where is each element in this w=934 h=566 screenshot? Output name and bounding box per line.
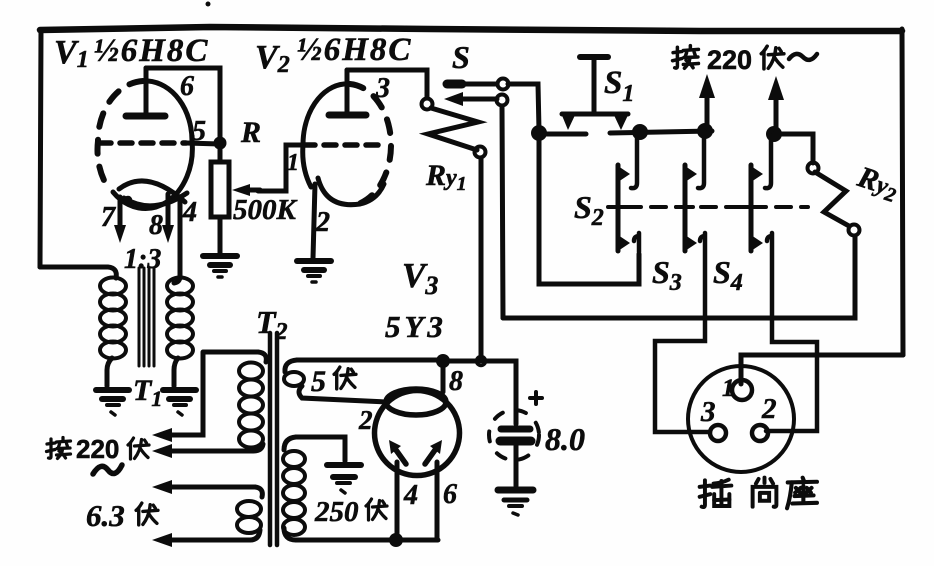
wire: bus segment B (S1 right) xyxy=(610,131,712,133)
tube V1 pin 4 cathode lead to T1 xyxy=(174,197,180,283)
S3 bottom moving contact xyxy=(685,235,697,251)
wire: bus segment A (S1 left) xyxy=(539,132,586,137)
T2 rectifier winding 5V top lead to V3 pin 8 xyxy=(297,358,441,363)
svg-text:6: 6 xyxy=(180,71,194,102)
svg-text:R: R xyxy=(240,116,261,149)
label 6.3伏 xyxy=(86,498,158,533)
svg-text:2: 2 xyxy=(358,405,373,435)
capacitor polarity + xyxy=(530,392,542,404)
S3 top moving contact xyxy=(685,166,697,182)
T2 heater winding 6.3V xyxy=(255,487,262,497)
tube V3 envelope xyxy=(375,391,460,476)
wire: Ry1 down to node 8 xyxy=(479,158,484,357)
capacitor dashed circle xyxy=(489,410,539,460)
tube V1 cathode arc xyxy=(119,181,185,202)
5V winding left turn xyxy=(285,360,297,372)
S4 top moving contact xyxy=(751,166,763,182)
wire: bus down to S2 bottom (holding contact) xyxy=(539,134,639,284)
svg-text:8: 8 xyxy=(149,210,163,241)
svg-text:4: 4 xyxy=(182,197,197,228)
arrow: 220V lead 2 (from T2 primary bottom) xyxy=(152,444,253,458)
tube V3 pin 4 lead xyxy=(395,462,400,540)
junction circle where Ry1 line meets node xyxy=(477,357,486,366)
switch S pole contact xyxy=(422,99,433,110)
tube V1 plate xyxy=(126,113,165,120)
S4 top fixed contact and lead to bus xyxy=(765,136,771,188)
svg-text:5: 5 xyxy=(192,116,206,147)
switch S upper throw contact bar xyxy=(447,80,462,89)
T1 left winding turns xyxy=(100,278,126,359)
ground below R xyxy=(203,256,237,277)
node: S2 top lead on bus xyxy=(632,124,648,140)
ink speck on top margin xyxy=(206,2,211,7)
tube V3 pin 6 lead xyxy=(435,462,440,540)
T2 core xyxy=(270,333,277,545)
svg-text:5Y3: 5Y3 xyxy=(385,309,447,344)
5V winding bottom lead to V3 pin 2 xyxy=(299,386,386,402)
wiper arrow into R (from V2 grid) xyxy=(232,184,260,196)
svg-text:T1: T1 xyxy=(133,374,162,411)
svg-text:220: 220 xyxy=(707,45,752,75)
label 接220伏~ xyxy=(673,45,817,75)
tube V2 plate lead pin 3 xyxy=(345,70,350,113)
svg-text:S1: S1 xyxy=(604,65,634,107)
switch S lower throw arrow contact xyxy=(444,92,497,106)
svg-text:V2: V2 xyxy=(255,39,290,78)
tube V2 grid (dashed) xyxy=(303,142,387,148)
node: V1 grid / plate / R junction xyxy=(214,137,227,150)
arrow: 220V lead 1 (from T2 primary top) xyxy=(152,352,258,442)
tube V1 pin 7 lead arrow xyxy=(114,197,126,243)
resistor R body xyxy=(211,162,229,217)
tube V1 envelope xyxy=(97,81,192,208)
svg-text:½6H8C: ½6H8C xyxy=(297,32,412,68)
label 5伏 xyxy=(311,365,356,398)
svg-text:1: 1 xyxy=(722,375,735,402)
svg-text:2: 2 xyxy=(761,393,777,425)
wire: S upper throw to bus xyxy=(464,82,497,87)
wire: 250V winding bottom to V3 plates xyxy=(296,538,438,543)
tube V1 grid (dashed) xyxy=(99,140,186,146)
capacitor bottom lead xyxy=(514,445,519,486)
switch S upper throw terminal circle xyxy=(498,79,509,90)
S1 left arrowhead xyxy=(561,113,576,130)
wire: right border down xyxy=(902,29,903,355)
wire: S lower throw down xyxy=(502,106,503,318)
wire: V2 plate to switch S pole xyxy=(347,70,427,98)
S2 bottom moving contact xyxy=(618,235,630,251)
ground under T1 right xyxy=(163,390,196,415)
svg-text:Ry1: Ry1 xyxy=(425,159,467,195)
svg-text:4: 4 xyxy=(403,480,418,511)
svg-text:3: 3 xyxy=(700,396,716,428)
wire: S upper throw to bus dot xyxy=(508,84,539,130)
S3 actuator tick xyxy=(676,205,693,209)
S2 actuator tick xyxy=(608,205,626,209)
svg-text:V3: V3 xyxy=(402,256,438,300)
relay coil Ry1 xyxy=(428,108,478,150)
tube V1 heater arc xyxy=(124,193,187,206)
svg-text:S: S xyxy=(452,39,470,75)
socket pin 3 xyxy=(710,425,726,441)
tube V2 cathode arc xyxy=(318,178,384,205)
svg-text:S4: S4 xyxy=(713,254,743,296)
svg-text:Ry2: Ry2 xyxy=(852,160,903,207)
tube V1 pin 7 contact dot xyxy=(125,197,131,203)
tube V1 pin 8 lead arrow xyxy=(162,194,174,243)
tube V2 envelope xyxy=(303,84,391,205)
T1 left winding bottom lead xyxy=(107,358,112,386)
svg-text:2: 2 xyxy=(315,207,330,238)
wire: R bottom lead xyxy=(218,217,223,253)
pushbutton S1 plunger xyxy=(580,57,608,112)
S4 bottom moving contact xyxy=(751,235,763,251)
node: S3 top lead / mains arrow on bus xyxy=(697,123,713,139)
svg-text:8: 8 xyxy=(449,366,463,397)
tube V2 cathode lead pin 2 xyxy=(313,184,315,258)
svg-text:1: 1 xyxy=(287,150,299,176)
tube V1 grid lead xyxy=(186,143,220,144)
pushbutton S1 crossbar xyxy=(562,112,628,117)
mains arrow 2 (接220伏) xyxy=(768,76,784,130)
svg-text:220: 220 xyxy=(76,434,119,464)
node: bus left junction xyxy=(531,125,547,141)
svg-text:V1: V1 xyxy=(54,34,89,73)
svg-text:3: 3 xyxy=(375,73,390,104)
tube V2 grid lead pin 1 to R wiper xyxy=(258,145,305,191)
svg-text:½6H8C: ½6H8C xyxy=(94,33,209,69)
Ry2 top terminal circle xyxy=(808,163,819,174)
svg-text:8.0: 8.0 xyxy=(545,421,585,457)
wire: top border bus xyxy=(40,27,902,31)
S4 actuator tick xyxy=(742,205,759,209)
S2 top moving contact xyxy=(618,166,630,182)
ground under T1 left xyxy=(96,390,129,415)
arrow: 6.3V lead top xyxy=(152,480,255,494)
socket body xyxy=(688,366,794,472)
node: pin 8 / 5V / B+ junction xyxy=(436,354,450,368)
S1 right arrowhead xyxy=(613,113,629,130)
socket pin 1 xyxy=(732,380,752,400)
switch S4 movable bar xyxy=(749,165,754,251)
S2 bottom fixed contact xyxy=(634,233,639,252)
switch S lower throw terminal circle xyxy=(497,95,508,106)
svg-text:6.3: 6.3 xyxy=(86,498,125,533)
wire: socket pin1 riser to right border xyxy=(741,355,903,384)
svg-text:7: 7 xyxy=(101,202,116,233)
tube V2 plate xyxy=(329,112,366,119)
ground under capacitor xyxy=(498,490,533,515)
ground below V2 xyxy=(297,261,331,282)
node: V3 pin 4 junction xyxy=(389,533,403,547)
node: S4 top lead / mains arrow 2 xyxy=(766,126,782,142)
wire: S4 node to Ry2 top xyxy=(774,134,813,163)
S4 bottom fixed contact and lead to socket pin 2 xyxy=(766,233,817,431)
wire: long run to Ry2 bottom xyxy=(503,236,855,318)
relay coil Ry2 xyxy=(815,172,849,226)
250V winding left cap and turns xyxy=(284,437,296,540)
tube V3 filament ellipse xyxy=(386,389,446,415)
wire: V1 plate to R top xyxy=(146,68,220,162)
arrow: 6.3V lead bottom xyxy=(152,533,250,547)
Ry1 lower terminal circle xyxy=(475,147,486,158)
switch S2 movable bar xyxy=(616,165,621,251)
tube V3 diode plate right (arrow) xyxy=(425,440,442,464)
wire: node 8 to capacitor xyxy=(443,361,516,424)
T2 HV winding 250V top lead to ground xyxy=(296,437,345,461)
svg-text:500K: 500K xyxy=(233,194,298,226)
T1 core xyxy=(139,268,154,366)
svg-text:5: 5 xyxy=(311,365,326,398)
ground at 250V winding tap xyxy=(327,465,361,493)
tube V3 pin 8 lead xyxy=(441,361,446,392)
label 250伏 xyxy=(314,496,387,528)
mains arrow 1 (接220伏) xyxy=(699,74,715,128)
socket pin 2 xyxy=(752,425,768,441)
T2 primary winding (220V) xyxy=(258,352,266,362)
transformer T1 left winding lead from frame xyxy=(40,267,116,278)
Ry2 bottom terminal circle xyxy=(849,225,860,236)
S2 top fixed contact and lead to bus xyxy=(631,134,637,188)
svg-text:S3: S3 xyxy=(652,254,682,296)
svg-text:250: 250 xyxy=(314,496,359,528)
label 插尚座 xyxy=(700,478,817,509)
T1 right winding turns xyxy=(167,278,193,359)
S3 bottom fixed contact and lead to socket pin 3 xyxy=(655,233,710,432)
tube V3 diode plate left (arrow) xyxy=(389,440,406,464)
svg-text:S2: S2 xyxy=(574,189,604,231)
label 接220伏 ~ xyxy=(47,434,150,464)
capacitor C 8.0 top plate xyxy=(501,426,530,433)
switch S3 movable bar xyxy=(683,165,688,251)
T1 right winding bottom lead xyxy=(174,358,178,386)
S3 top fixed contact and lead to bus xyxy=(698,131,704,188)
svg-text:6: 6 xyxy=(443,479,457,510)
capacitor C 8.0 bottom plate xyxy=(500,437,531,446)
wire: left border down to T1 xyxy=(40,30,41,267)
ganged link (dashed) xyxy=(626,205,808,209)
tube V1 plate lead pin 6 xyxy=(144,68,149,114)
